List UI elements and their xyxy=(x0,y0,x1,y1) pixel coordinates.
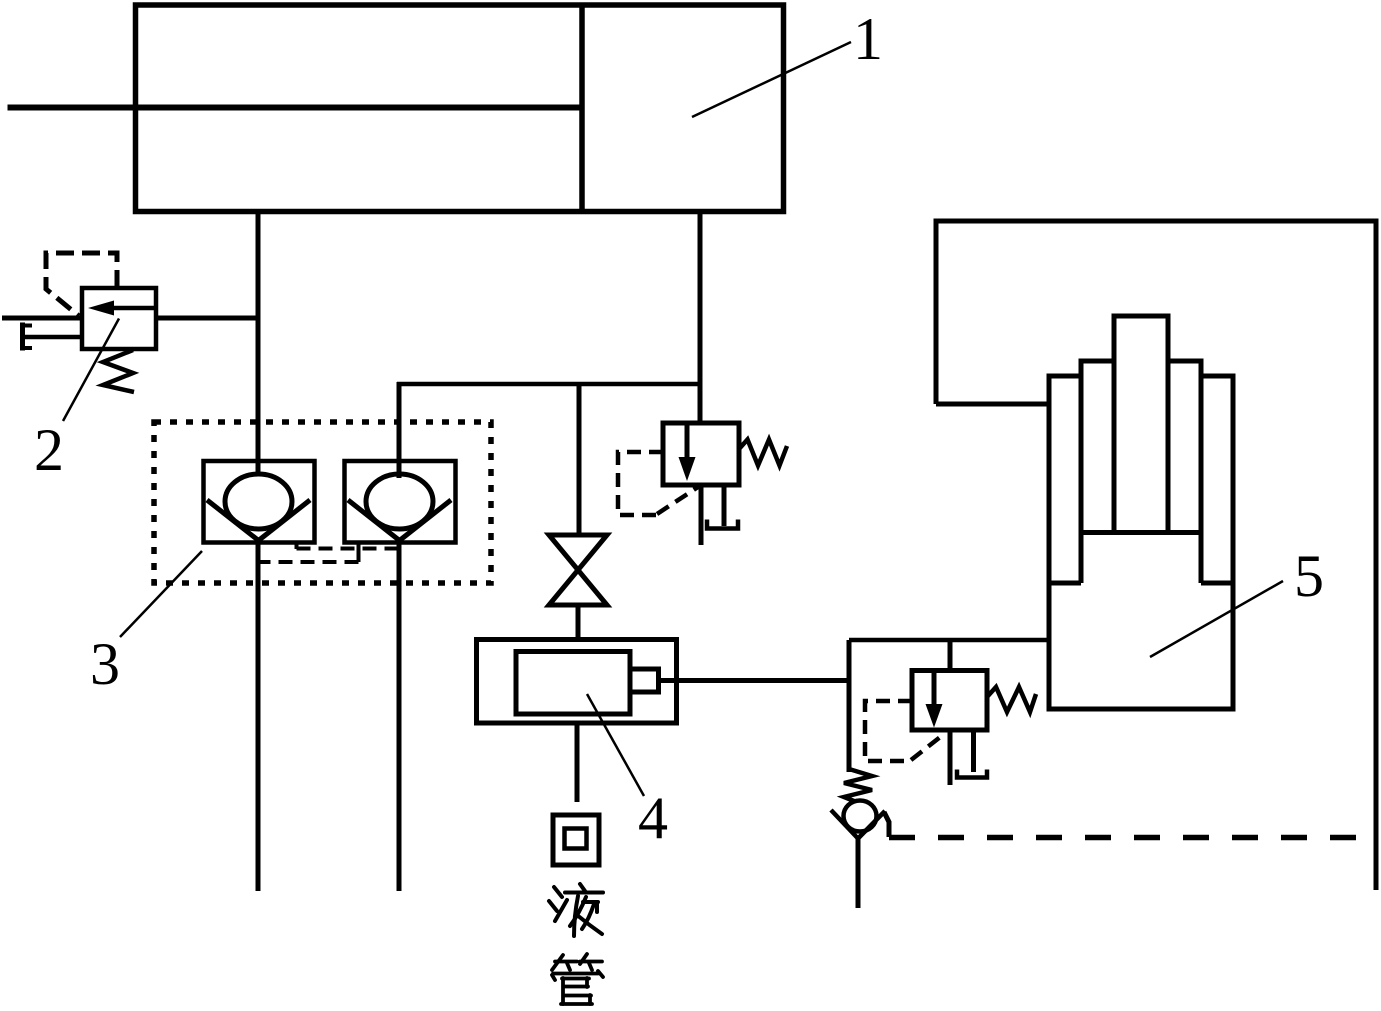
check valve right box xyxy=(345,461,456,543)
pilot line from right check valve xyxy=(250,541,359,562)
reducing valve right outlet xyxy=(948,730,953,785)
text hui (return) xyxy=(553,815,599,865)
reducing valve right drain xyxy=(971,730,976,772)
wire to right assembly riser xyxy=(847,640,852,772)
wire big loop xyxy=(936,221,1376,890)
reducing valve right arrow xyxy=(932,671,937,707)
reducing valve right spring xyxy=(987,687,1036,712)
reducing valve middle spring xyxy=(739,440,787,466)
valve 2 body xyxy=(82,288,156,349)
check valve right seat xyxy=(348,500,451,541)
dashed return line xyxy=(889,835,1376,841)
wire filter outlet xyxy=(659,678,850,683)
valve 2 arrow xyxy=(88,301,114,316)
pilot line from left check valve xyxy=(297,541,400,549)
check valve right ball xyxy=(366,474,433,529)
cylinder 1 body xyxy=(8,5,784,212)
reducing valve middle tank xyxy=(707,520,738,529)
wire below check valve xyxy=(856,838,861,908)
check valve left seat xyxy=(207,500,310,541)
label 5 leader line xyxy=(1150,581,1283,657)
reducing valve right pilot xyxy=(865,701,944,761)
reducing valve middle arrow xyxy=(685,423,690,459)
valve 2 manual actuator xyxy=(23,323,83,351)
spring check valve seat xyxy=(831,810,885,839)
svg-text:4: 4 xyxy=(638,785,668,851)
check valve left box xyxy=(204,461,315,543)
reducing valve right tank xyxy=(957,770,987,778)
wire left port riser xyxy=(256,212,261,892)
wire shutoff branch xyxy=(577,384,582,535)
label 3 leader line xyxy=(120,551,202,637)
label 2 leader line xyxy=(63,319,119,422)
check valve left ball xyxy=(225,474,292,529)
dotted enclosure 3 xyxy=(154,422,491,583)
reducing valve middle pilot xyxy=(618,452,698,515)
label 4 leader line xyxy=(587,694,644,796)
wire main horizontal xyxy=(397,382,700,387)
text ye (liquid) xyxy=(549,884,603,936)
svg-text:1: 1 xyxy=(853,6,883,72)
wire right assembly top xyxy=(849,638,1048,643)
valve 2 pilot dashed line xyxy=(46,253,117,316)
valve 2 spring xyxy=(103,350,134,392)
svg-text:2: 2 xyxy=(34,417,64,483)
reducing valve middle drain xyxy=(722,485,727,526)
wire loop to cylinder 5 xyxy=(936,402,1048,407)
wire valve2 inlet xyxy=(2,316,82,321)
telescopic cylinder 5 xyxy=(1047,316,1236,709)
wire filter drain xyxy=(575,723,580,802)
svg-text:3: 3 xyxy=(90,631,120,697)
check valve to dashed return elbow xyxy=(884,812,889,837)
wire reducing valve right inlet xyxy=(948,640,953,670)
reducing valve middle outlet xyxy=(699,485,704,545)
reducing valve middle body xyxy=(663,423,739,485)
wire shutoff to filter xyxy=(576,605,581,640)
text guan (pipe) xyxy=(552,954,603,1004)
filter unit 4 xyxy=(477,640,677,724)
svg-text:5: 5 xyxy=(1294,543,1324,609)
shut-off valve xyxy=(549,535,607,605)
wire valve2 outlet xyxy=(156,316,260,321)
spring check valve ball xyxy=(844,801,877,832)
wire right port riser xyxy=(698,212,703,424)
reducing valve right body xyxy=(912,671,987,731)
wire second riser xyxy=(397,382,402,891)
spring check valve spring xyxy=(844,769,872,803)
label 1 leader line xyxy=(692,42,851,117)
